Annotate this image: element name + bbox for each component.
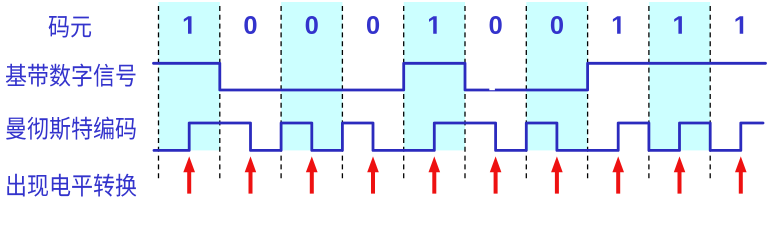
row label 码元 bbox=[49, 16, 92, 37]
bit value 0 cell 6 bbox=[490, 16, 502, 34]
dashed cell boundary 9 bbox=[648, 6, 650, 180]
red transition arrow cell 10 bbox=[735, 156, 747, 193]
red transition arrow cell 9 bbox=[674, 156, 686, 193]
red transition arrow cell 2 bbox=[245, 156, 257, 193]
row label 出现电平转换 bbox=[7, 174, 136, 197]
dashed cell boundary 1 bbox=[158, 6, 160, 180]
row label 基带数字信号 bbox=[6, 64, 136, 87]
red transition arrow cell 7 bbox=[551, 156, 563, 193]
red transition arrow cell 5 bbox=[429, 156, 441, 193]
dashed cell boundary 3 bbox=[280, 6, 282, 180]
white notch artifact on NRZ low line bbox=[489, 88, 495, 91]
bit value 0 cell 7 bbox=[551, 16, 563, 34]
bit value 1 cell 9 bbox=[674, 16, 682, 34]
bit value 1 cell 5 bbox=[429, 16, 437, 34]
red transition arrow cell 3 bbox=[306, 156, 318, 193]
NRZ baseband waveform bbox=[154, 63, 766, 90]
dashed cell boundary 5 bbox=[403, 6, 405, 180]
cyan highlight cell 9 bbox=[649, 2, 710, 150]
red transition arrow cell 1 bbox=[183, 156, 195, 193]
Manchester encoded waveform bbox=[154, 123, 763, 150]
dashed cell boundary 10 bbox=[709, 6, 711, 180]
red transition arrow cell 4 bbox=[367, 156, 379, 193]
bit value 0 cell 2 bbox=[244, 16, 256, 34]
cyan highlight cell 7 bbox=[526, 2, 587, 150]
bit value 1 cell 10 bbox=[736, 16, 744, 34]
cyan highlight cell 3 bbox=[281, 2, 342, 150]
dashed cell boundary 8 bbox=[587, 6, 589, 180]
dashed cell boundary 4 bbox=[341, 6, 343, 180]
bit value 0 cell 3 bbox=[306, 16, 318, 34]
dashed cell boundary 6 bbox=[464, 6, 466, 180]
red transition arrow cell 8 bbox=[612, 156, 624, 193]
cyan highlight cell 1 bbox=[159, 2, 220, 150]
cyan highlight cell 5 bbox=[404, 2, 465, 150]
bit value 1 cell 8 bbox=[613, 16, 621, 34]
dashed cell boundary 7 bbox=[525, 6, 527, 180]
dashed cell boundary 2 bbox=[219, 6, 221, 180]
row label 曼彻斯特编码 bbox=[6, 117, 136, 140]
bit value 0 cell 4 bbox=[367, 16, 379, 34]
bit value 1 cell 1 bbox=[184, 16, 192, 34]
red transition arrow cell 6 bbox=[490, 156, 502, 193]
